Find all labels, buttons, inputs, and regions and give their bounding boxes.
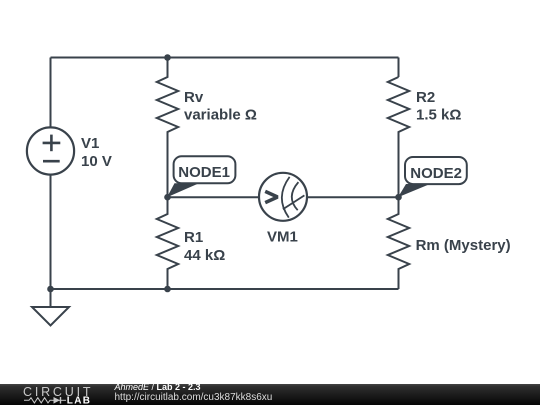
wire ground stub [50,289,52,307]
value label VM1 [267,229,298,246]
resistor R2 [388,77,409,197]
svg-text:VM1: VM1 [267,229,298,246]
wire left branch lower [50,175,52,289]
node junction top middle [164,54,171,61]
footer bar [0,384,540,405]
footer title text [114,382,273,403]
svg-text:R1: R1 [184,229,203,246]
svg-text:NODE1: NODE1 [178,164,230,181]
svg-text:10 V: 10 V [81,153,112,170]
node NODE2 junction [395,194,402,201]
svg-text:Rv: Rv [184,89,204,106]
wire left branch upper [50,58,52,128]
resistor R1 [157,197,178,289]
node NODE1 junction [164,194,171,201]
svg-text:V1: V1 [81,135,99,152]
node label NODE1 callout [167,156,235,197]
resistor Rv [157,58,178,198]
ground [32,307,69,326]
svg-text:Rm (Mystery): Rm (Mystery) [416,237,511,254]
svg-text:variable Ω: variable Ω [184,107,257,124]
voltmeter VM1 [259,173,307,221]
svg-text:AhmedE / Lab 2 - 2.3: AhmedE / Lab 2 - 2.3 [114,382,201,392]
value label Rv variable [184,89,257,124]
voltage source V1 [27,127,74,174]
wire middle horizontal [168,196,399,198]
wire bottom rail [51,288,399,290]
value label R2 1.5k [416,89,461,124]
node junction bottom-left [47,286,54,293]
value label V1 10 V [81,135,112,170]
node junction bottom middle [164,286,171,293]
wire right branch upper [398,58,400,78]
svg-text:1.5 kΩ: 1.5 kΩ [416,107,461,124]
node label NODE2 callout [398,157,467,197]
svg-text:R2: R2 [416,89,435,106]
wire top rail [51,57,399,59]
CircuitLab logo [23,385,93,405]
resistor Rm [388,197,409,289]
svg-text:44 kΩ: 44 kΩ [184,247,225,264]
svg-text:LAB: LAB [67,396,91,405]
svg-text:http://circuitlab.com/cu3k87kk: http://circuitlab.com/cu3k87kk8s6xu [115,392,273,403]
value label Rm Mystery [416,237,511,254]
value label R1 44k [184,229,225,264]
svg-text:NODE2: NODE2 [410,165,462,182]
